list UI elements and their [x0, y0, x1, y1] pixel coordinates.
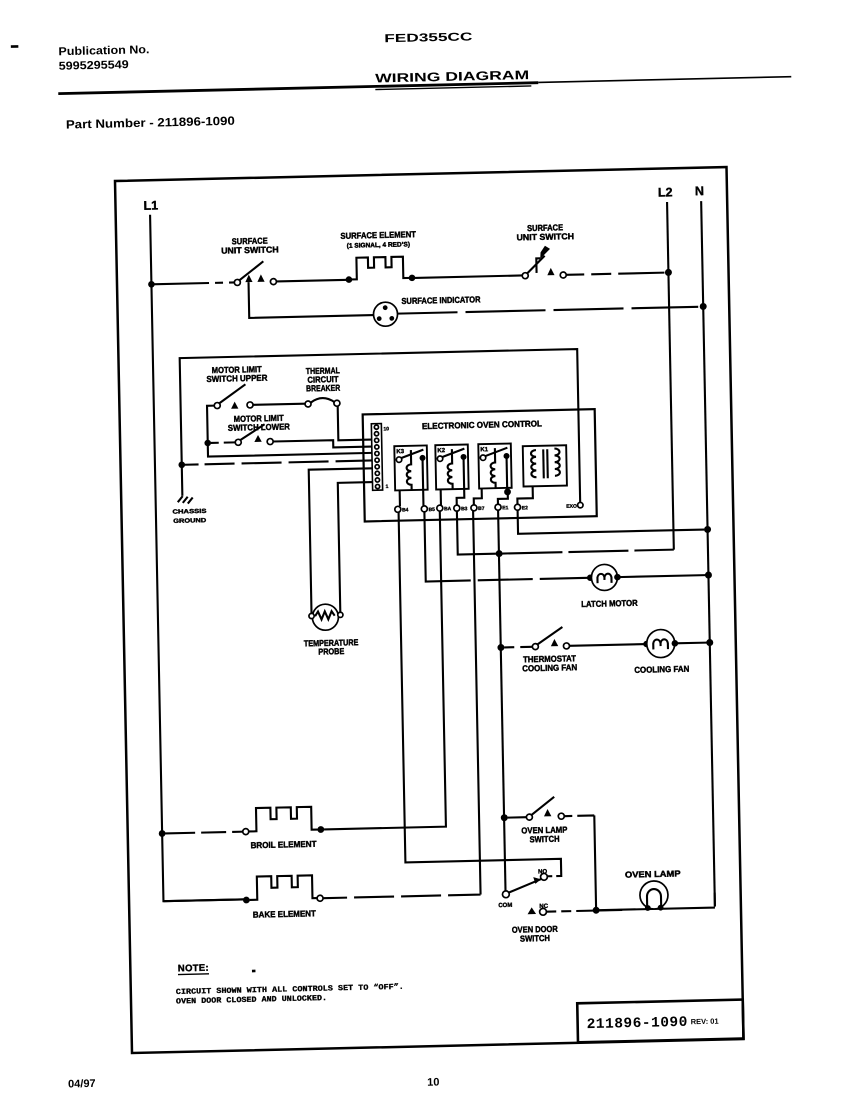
- svg-text:K1: K1: [480, 446, 488, 453]
- svg-text:SWITCH: SWITCH: [520, 933, 550, 944]
- stray mark: [252, 970, 256, 973]
- junction on L1: [148, 281, 155, 288]
- wire upper switch stub to riser: [207, 402, 372, 457]
- wire L1 bus vertical: [150, 213, 246, 901]
- oven lamp switch: [526, 797, 564, 821]
- junction E2-N: [704, 526, 711, 533]
- svg-text:EXO: EXO: [566, 504, 577, 510]
- svg-text:(1 SIGNAL, 4 RED’S): (1 SIGNAL, 4 RED’S): [347, 241, 410, 249]
- svg-text:04/97: 04/97: [68, 1078, 96, 1091]
- wire to oven lamp switch: [508, 816, 527, 819]
- wire B5 to latch motor: [424, 508, 588, 581]
- svg-text:5995295549: 5995295549: [59, 59, 129, 73]
- svg-text:UNIT SWITCH: UNIT SWITCH: [516, 231, 574, 242]
- relay K3 legs: [400, 490, 424, 507]
- svg-text:N: N: [695, 184, 704, 198]
- wire indicator to N: [398, 307, 699, 314]
- wire to lower switch: [211, 441, 241, 444]
- wire L1 to surface unit switch: [151, 282, 235, 284]
- junction L1 broil: [159, 830, 166, 837]
- junction fan-N: [706, 639, 713, 646]
- wire probe right lead: [338, 482, 375, 612]
- svg-text:NC: NC: [539, 903, 548, 910]
- junction latch left: [587, 574, 594, 581]
- latch motor M1: [591, 564, 618, 591]
- svg-text:NO: NO: [538, 868, 547, 875]
- svg-text:SWITCH: SWITCH: [529, 834, 559, 845]
- svg-text:K2: K2: [437, 447, 445, 454]
- wire L1 to bake element: [163, 899, 243, 901]
- wire thermostat to cooling fan: [569, 644, 646, 646]
- wire element to right switch: [415, 275, 522, 277]
- svg-text:REV: 01: REV: 01: [691, 1017, 719, 1027]
- svg-text:211896-1090: 211896-1090: [587, 1015, 689, 1033]
- oven lamp DS1: [640, 881, 669, 911]
- relay K2 legs: [441, 489, 465, 506]
- svg-text:10: 10: [383, 426, 389, 432]
- wire L2 bus vertical: [667, 202, 674, 550]
- svg-text:UNIT SWITCH: UNIT SWITCH: [221, 244, 279, 255]
- svg-text:PROBE: PROBE: [318, 646, 344, 657]
- svg-text:COM: COM: [498, 902, 512, 909]
- wire L2 branch: [502, 550, 673, 554]
- terminal EXO: [566, 502, 583, 509]
- wire lamp switch to NC node: [564, 815, 596, 910]
- junction E1 lamp switch: [501, 814, 508, 821]
- transformer T1: [523, 445, 567, 486]
- svg-text:B4: B4: [402, 507, 409, 513]
- svg-text:SWITCH UPPER: SWITCH UPPER: [206, 373, 268, 384]
- junction on ground line: [178, 461, 185, 468]
- svg-text:SWITCH LOWER: SWITCH LOWER: [228, 421, 291, 432]
- wire ground to connector: [185, 460, 373, 464]
- motor limit switch lower: [235, 424, 273, 445]
- thermostat cooling fan switch: [532, 627, 570, 650]
- svg-text:COOLING FAN: COOLING FAN: [634, 664, 689, 675]
- relay K2: [435, 444, 468, 489]
- svg-text:BREAKER: BREAKER: [306, 383, 341, 394]
- svg-text:BAKE ELEMENT: BAKE ELEMENT: [253, 908, 317, 919]
- svg-text:L1: L1: [143, 199, 158, 213]
- electronic oven control box U1: [363, 409, 597, 521]
- wire N bus vertical: [701, 201, 715, 906]
- header rule: [58, 81, 538, 95]
- junction NC-lamp-switch: [593, 907, 600, 914]
- thermal circuit breaker: [305, 398, 340, 407]
- svg-text:LATCH MOTOR: LATCH MOTOR: [581, 598, 638, 609]
- motor limit switch upper: [214, 384, 253, 409]
- svg-text:SURFACE INDICATOR: SURFACE INDICATOR: [401, 294, 481, 306]
- wire E2 to N: [518, 506, 705, 534]
- svg-text:FED355CC: FED355CC: [384, 31, 472, 45]
- svg-text:B3: B3: [461, 506, 468, 512]
- svg-text:GROUND: GROUND: [173, 517, 207, 525]
- svg-text:BA: BA: [444, 506, 452, 512]
- wire latch motor to N: [617, 575, 705, 577]
- svg-text:E2: E2: [522, 505, 528, 511]
- wire NC to lamp: [546, 910, 622, 912]
- wire lower switch to connector: [273, 439, 372, 449]
- junction lower switch feed: [204, 440, 211, 447]
- part number box: [577, 1000, 743, 1043]
- wire switch to surface element: [276, 280, 349, 282]
- wire lamp row: [599, 893, 715, 911]
- surface unit switch (left): [234, 261, 277, 285]
- broil element: [242, 807, 324, 835]
- svg-text:OVEN LAMP: OVEN LAMP: [625, 868, 681, 879]
- wire cooling fan to N: [675, 642, 707, 645]
- relay K1 legs: [474, 488, 508, 505]
- surface element: [345, 256, 415, 283]
- svg-text:K3: K3: [396, 448, 404, 455]
- svg-text:COOLING FAN: COOLING FAN: [522, 662, 577, 673]
- wire L1 to broil element: [165, 832, 245, 834]
- wire E1 down: [498, 510, 505, 891]
- svg-text:B7: B7: [478, 506, 485, 512]
- svg-text:L2: L2: [658, 185, 673, 199]
- wire right switch to L2: [566, 273, 664, 275]
- junction latch-N: [705, 571, 712, 578]
- cooling fan M2: [646, 629, 675, 658]
- EOC terminals: [395, 503, 528, 514]
- svg-text:B5: B5: [428, 507, 435, 513]
- relay K3: [394, 445, 427, 490]
- page header mark: [11, 45, 19, 48]
- svg-text:1: 1: [386, 484, 389, 490]
- junction relay K1 leg: [504, 488, 511, 495]
- surface unit switch (right): [522, 245, 567, 279]
- wire switch to surface indicator: [249, 279, 374, 318]
- wire bake element to B7: [316, 511, 481, 898]
- junction E1-E3-L2: [496, 550, 503, 557]
- junction on L2: [665, 269, 672, 276]
- surface indicator: [373, 302, 397, 327]
- relay K1: [478, 443, 511, 488]
- junction E1-thermostat: [497, 644, 504, 651]
- svg-text:10: 10: [427, 1077, 439, 1089]
- junction indicator-N: [700, 303, 707, 310]
- svg-text:BROIL ELEMENT: BROIL ELEMENT: [250, 839, 317, 851]
- svg-text:CHASSIS: CHASSIS: [172, 508, 206, 516]
- svg-text:NOTE:: NOTE:: [178, 963, 209, 975]
- diagram border frame: [115, 167, 744, 1053]
- svg-text:E1: E1: [502, 505, 508, 511]
- wire breaker to connector: [338, 405, 372, 441]
- wire B4 to door switch NO: [399, 509, 562, 880]
- wire chassis ground to EXO: [180, 349, 580, 511]
- wire probe left lead: [309, 468, 375, 613]
- wire upper switch to breaker: [253, 404, 305, 405]
- svg-text:Publication No.: Publication No.: [58, 44, 149, 58]
- connector J1: [371, 424, 382, 491]
- wire broil element to BA: [318, 511, 446, 829]
- temperature probe: [309, 604, 344, 631]
- svg-text:SURFACE ELEMENT: SURFACE ELEMENT: [340, 229, 416, 241]
- bake element: [243, 875, 324, 903]
- ground: [178, 496, 193, 504]
- oven door switch: [502, 873, 548, 916]
- transformer legs: [517, 486, 533, 504]
- wire to thermostat: [504, 646, 532, 649]
- wire E3 to node: [457, 510, 496, 554]
